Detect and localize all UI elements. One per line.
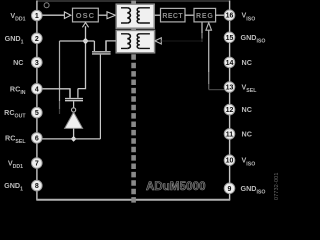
pin 7 — [32, 158, 43, 169]
wire VSEL up — [208, 30, 210, 72]
package top edge — [37, 0, 230, 2]
transistor Q2 — [92, 41, 111, 54]
pin 16 — [224, 10, 235, 21]
svg-text:4: 4 — [35, 86, 39, 93]
svg-text:5: 5 — [35, 110, 39, 117]
svg-text:9: 9 — [228, 186, 232, 193]
svg-text:6: 6 — [35, 135, 39, 142]
faint feedback wire — [161, 40, 202, 42]
package right edge — [229, 1, 231, 200]
isolation barrier dash between transformers — [131, 28, 136, 30]
pin 4 — [32, 84, 43, 95]
pin 1 — [32, 10, 43, 21]
pin 5 — [32, 107, 43, 118]
wire pin4 to Q1 — [42, 89, 70, 98]
pin 3 — [32, 57, 43, 68]
svg-text:1: 1 — [35, 13, 39, 20]
circle mark top-left — [44, 3, 49, 8]
isolation barrier dash above transformer — [131, 1, 136, 4]
svg-text:3: 3 — [35, 60, 39, 67]
oscillator OSC block — [73, 8, 99, 22]
svg-text:14: 14 — [226, 60, 234, 67]
rectifier RECT block — [161, 8, 186, 22]
wire REG to pin16 — [216, 14, 225, 16]
arrowhead into transformer T1 — [107, 12, 115, 19]
wire REG down to feedback — [201, 22, 203, 33]
pin 15 — [224, 32, 235, 43]
wire OSC to transformer — [98, 14, 106, 16]
arrowhead up into OSC — [82, 23, 88, 28]
wire node down to Q1 — [78, 44, 86, 89]
svg-text:11: 11 — [226, 131, 234, 138]
wire stub down (fading, toward RCOUT) — [59, 41, 61, 101]
wire triangle to RCSEL node — [73, 128, 75, 137]
pin labels left — [4, 11, 26, 193]
package left edge — [36, 1, 38, 200]
svg-text:7: 7 — [35, 161, 39, 168]
inverter bubble — [72, 108, 76, 112]
pin 2 — [32, 33, 43, 44]
wire T2 left terminal — [106, 41, 116, 51]
arrowhead into T2 (feedback) — [155, 38, 161, 44]
svg-text:07732-001: 07732-001 — [274, 172, 280, 200]
svg-text:ADuM5000: ADuM5000 — [146, 181, 206, 193]
isolation barrier dashed line — [131, 54, 136, 203]
transformer T1 — [116, 4, 154, 28]
arrowhead up into REG (VSEL) — [206, 23, 212, 31]
pin 9 — [224, 183, 235, 194]
wire node right to Q2 — [86, 40, 95, 42]
svg-text:NC: NC — [242, 58, 252, 67]
transistor Q1 — [65, 89, 83, 108]
pin 12 — [224, 104, 235, 115]
pin circles left — [32, 10, 43, 191]
transformer T2 — [116, 30, 154, 52]
node diamond under OSC — [82, 38, 88, 45]
regulator REG block — [194, 8, 216, 22]
wire pin1 to OSC — [42, 14, 64, 16]
inverter U1 triangle — [65, 112, 83, 128]
pin 6 — [32, 133, 43, 144]
svg-text:2: 2 — [35, 36, 39, 43]
wire RCSEL — [42, 138, 100, 140]
svg-text:12: 12 — [226, 107, 234, 114]
pin 10 — [224, 155, 235, 166]
svg-text:13: 13 — [226, 85, 234, 92]
svg-text:OSC: OSC — [76, 11, 95, 20]
svg-text:NC: NC — [242, 129, 252, 138]
svg-text:16: 16 — [226, 13, 234, 20]
wire node to up-arrow — [85, 26, 87, 38]
faint wire pin13 to VSEL line — [209, 89, 225, 91]
svg-text:15: 15 — [226, 35, 234, 42]
node diamond RCSEL — [71, 136, 77, 142]
svg-text:RECT: RECT — [162, 13, 183, 20]
pin 14 — [224, 57, 235, 68]
package bottom edge / GND rail — [36, 199, 230, 201]
pin 11 — [224, 129, 235, 140]
wire Q2 gate down to RCSEL net — [99, 55, 101, 139]
pin 8 — [32, 180, 43, 191]
svg-text:REG: REG — [196, 13, 214, 20]
svg-text:10: 10 — [226, 158, 234, 165]
pin circles right — [224, 10, 235, 194]
pin labels right — [241, 11, 266, 196]
wire node left — [60, 40, 86, 42]
svg-text:NC: NC — [13, 58, 23, 67]
arrowhead into OSC — [64, 12, 70, 19]
wire T1 to RECT — [155, 14, 161, 16]
wire RECT to REG — [185, 14, 194, 16]
svg-text:8: 8 — [35, 183, 39, 190]
svg-text:NC: NC — [242, 105, 252, 114]
pin 13 — [224, 82, 235, 93]
